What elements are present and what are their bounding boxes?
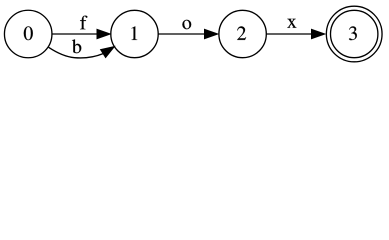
state 2 label "2" [237,26,246,40]
state 2 circle [219,10,266,57]
edge 0->1 "b" arrowhead [101,47,115,58]
state 3 outer circle [326,6,382,62]
edge 1->2 "o" wire [158,33,205,35]
state 1 circle [111,10,158,57]
edge 2->3 "x" wire [266,33,311,35]
state 1 label "1" [132,26,138,40]
edge 0->1 "f" wire [52,33,97,35]
edge label x [287,19,296,28]
state 3 label "3" [349,26,357,40]
edge 2->3 "x" arrowhead [312,29,325,38]
edge label b [72,39,81,53]
edge label f [80,16,87,30]
edge label o [182,20,191,29]
edge 0->1 "b" curved wire [49,47,104,58]
state 0 circle [4,10,52,58]
edge 1->2 "o" arrowhead [205,29,218,38]
state 0 label "0" [24,26,33,40]
state 3 (accepting) inner circle [331,10,378,57]
edge 0->1 "f" arrowhead [97,29,110,38]
